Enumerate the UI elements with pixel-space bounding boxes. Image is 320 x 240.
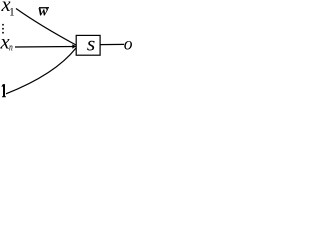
svg-text:w: w: [38, 4, 48, 20]
svg-text:x: x: [0, 32, 10, 54]
junction arrowhead at box input: [72, 44, 76, 49]
summing box: [76, 35, 100, 55]
svg-text:o: o: [124, 33, 133, 53]
svg-text:n: n: [9, 41, 13, 52]
wire from bias 1 to summing box: [6, 48, 76, 94]
svg-text:1: 1: [9, 6, 15, 18]
svg-text:s: s: [87, 32, 95, 56]
output wire: [100, 43, 124, 45]
node 1 (bias input): [1, 84, 6, 97]
wire from xn to summing box: [15, 46, 76, 49]
vertical ellipsis dots: [2, 24, 4, 34]
wire from x1 to summing box: [16, 9, 76, 46]
perceptron diagram: [0, 0, 133, 105]
